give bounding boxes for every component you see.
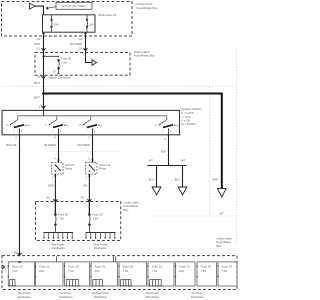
svg-text:BLK: BLK [161,149,166,153]
label ACC Cut Relay [99,163,110,171]
wire YEL [88,174,90,214]
svg-text:Fuse 24: Fuse 24 [222,265,233,269]
svg-text:WHT: WHT [34,42,40,46]
label Fan Power Distribution [52,243,66,250]
svg-text:No Power: No Power [60,291,72,295]
label Fuse 20 7.5A [93,213,104,221]
hollow arrow (M/T drop) [178,187,187,195]
svg-text:Sea Power: Sea Power [18,291,31,295]
svg-text:Multi-fuse 23: Multi-fuse 23 [99,13,117,17]
under-dash fuse/relay box section 2 (dashed) [36,202,121,241]
label Under-hood Fuse/Relay Box [137,2,159,10]
fuse module Fuse 20 [118,262,146,287]
label Under-dash Fuse/Relay Box (lower) [124,201,139,212]
svg-text:Distribution: Distribution [59,295,73,299]
label Sea Power Distribution (module 1) [18,291,32,299]
under-dash fuse/relay box section 1 (dashed) [35,53,130,76]
under-hood fuse/relay box (dashed enclosure) [2,2,133,37]
branch wire to fuse 39 [44,56,59,57]
label Under-dash Fuse/Relay Box (right) [217,237,232,248]
internal bus wire [18,115,167,117]
svg-text:7.5A: 7.5A [58,217,64,221]
svg-text:Box: Box [217,244,223,248]
label No Power Distribution (module 3) [59,291,73,299]
wire GRN [54,174,56,214]
fuse F38 [55,214,57,233]
svg-text:GRN: GRN [48,183,54,187]
fuse module Fuse 18 [64,262,90,287]
junction node A/T tap [42,92,45,95]
battery feed triangle symbol [30,3,36,9]
harness dotted boundary (middle) [50,151,121,153]
svg-text:G2: G2 [79,37,83,41]
wire from triangle to multi-fuse 23 [35,6,43,15]
svg-text:Fuse/Relay Box: Fuse/Relay Box [134,54,156,58]
svg-text:Box: Box [124,208,130,212]
fuse (left, 10A) [51,15,53,32]
svg-text:Fuse 21: Fuse 21 [152,265,163,269]
svg-text:Fuse 20: Fuse 20 [123,265,134,269]
wire BLK/RED [58,135,60,163]
pin tick G2 at box bottom [84,32,87,34]
svg-text:Relay: Relay [65,166,73,170]
svg-text:10A: 10A [39,269,44,273]
svg-text:YEL: YEL [83,183,89,187]
wire into fuse 20 [88,202,90,214]
svg-text:No Power: No Power [192,291,204,295]
svg-text:Da Sea Power: Da Sea Power [92,291,109,295]
svg-text:Fuse 11: Fuse 11 [39,265,50,269]
svg-text:Fuse/Relay Box: Fuse/Relay Box [137,6,159,10]
svg-text:A5: A5 [81,195,85,199]
connector arrow at A4 [53,199,57,202]
svg-text:WHT: WHT [213,178,219,182]
hollow arrow (A/T drop) [152,187,161,195]
svg-text:Distribution: Distribution [146,295,160,299]
hollow arrow (to other circuit) [92,60,97,66]
pin tick G1 at box bottom [42,32,45,34]
svg-text:Distribution: Distribution [18,295,32,299]
svg-text:III = START: III = START [181,122,196,126]
svg-text:Fuse 18: Fuse 18 [68,265,79,269]
hollow arrow to A/T [218,189,227,197]
wire WHT/RED into section 1 to arrow [86,53,92,63]
svg-text:7.5A: 7.5A [152,269,158,273]
ignition switch gang 3 [79,116,102,135]
relay pin stub (IG2 bottom) [54,174,56,177]
svg-text:BLU: BLU [175,177,180,181]
fuse F39 [57,59,60,73]
connector arrow on wire G2 [84,48,88,51]
svg-text:G1: G1 [37,37,41,41]
svg-text:Fuse 19: Fuse 19 [95,265,106,269]
pin arrow on left edge [2,265,5,269]
svg-text:BLK/RED: BLK/RED [44,143,56,147]
svg-text:7.5A: 7.5A [201,269,207,273]
harness dotted boundary (right) [209,87,211,216]
IG2 relay contact [55,164,61,172]
svg-text:7.5A: 7.5A [68,269,74,273]
junction node to fuse 39 [42,55,44,57]
wire G2 WHT/RED (right output of multi-fuse) [85,32,87,52]
svg-text:A/T: A/T [220,212,225,216]
wire G1 WHT (left output of multi-fuse) [43,32,45,52]
connector arrow on wire G1 [42,48,46,51]
ACC cut relay box [86,163,98,175]
wire WHT (to ignition switch) [43,75,45,110]
svg-text:Fuse 23: Fuse 23 [201,265,212,269]
fuse (right, 10A) [86,15,88,32]
connector arrow at A5 [87,199,91,202]
label Sea Power Distribution (module 6) [146,291,160,299]
label Da Sea Power Distribution (module 4) [92,291,109,299]
fuse module Fuse 23 [196,262,216,286]
svg-text:A4: A4 [47,195,51,199]
HOT AT ALL TIMES box [56,2,92,9]
harness dotted boundary (top) [2,86,237,88]
svg-text:G1: G1 [37,47,41,51]
wire BLU (A/T) [156,166,158,188]
distribution bar (fuse 20) [86,232,116,234]
connector arrow at A8 [18,253,22,256]
fuse F20 [89,214,91,233]
splice bar [147,165,186,167]
svg-text:BLK/YEL: BLK/YEL [6,143,17,147]
connector arrow into ignition switch [42,106,46,109]
wire BLK/YEL [19,135,21,256]
harness dotted boundary (bottom right) [150,215,237,217]
svg-text:WHT: WHT [34,81,40,85]
wire WHT through section 1 [43,53,45,76]
fuse module Fuse 21 [147,262,174,287]
svg-text:7.5A: 7.5A [123,269,129,273]
distribution ticks (fuse 20) [86,233,115,238]
svg-text:A8: A8 [14,250,18,254]
IG2 cut relay box [52,163,64,175]
relay pin stub (ACC bottom) [88,174,90,177]
relay pin stub (ACC top) [92,159,94,163]
ignition switch gang 2 [45,116,68,135]
ignition switch gang 1 [6,116,29,135]
svg-text:Distribution: Distribution [94,246,108,250]
leader line to HOT AT ALL TIMES label [48,7,56,8]
svg-text:G3: G3 [79,47,83,51]
svg-text:WHT: WHT [34,96,40,100]
label Fuse 38 7.5A [58,213,69,221]
fuse module Fuse 11 [35,256,63,286]
svg-text:Distribution: Distribution [94,295,108,299]
multi-fuse 23 box [43,15,96,32]
label Fuse 39 7.5A [61,57,72,65]
ignition switch gang 4 [155,116,178,135]
svg-text:10A: 10A [54,22,59,26]
svg-text:A/T: A/T [149,159,154,163]
fuse module Fuse 24 [217,262,237,286]
svg-text:7.5A: 7.5A [222,269,228,273]
svg-text:Distribution: Distribution [52,246,66,250]
svg-text:WHT/RED: WHT/RED [70,42,83,46]
distribution arrowheads (fuse 20) [85,238,116,240]
svg-text:BLU: BLU [149,177,154,181]
label Under-dash Fuse/Relay Box (upper) [134,50,156,58]
svg-text:HOT AT ALL TIMES: HOT AT ALL TIMES [62,4,86,8]
connector arrow at A2 (option connector) [42,76,46,79]
ignition switch box [2,110,180,134]
distribution arrowheads (fuse 38) [43,238,73,240]
wire BLU (M/T) [182,166,184,188]
wire into fuse 38 [54,202,56,214]
junction dot fuse 10 feed [18,261,20,263]
svg-text:A2: A2 [37,75,41,79]
svg-text:WHT/RED: WHT/RED [77,143,90,147]
fuse module Fuse 19 [90,256,117,287]
svg-text:10A: 10A [89,22,94,26]
svg-text:Fuse 10: Fuse 10 [12,265,23,269]
harness dotted boundary (far right vertical) [236,50,238,242]
wire BLK [168,135,170,166]
svg-text:M/T: M/T [181,159,186,163]
relay pin stub (IG2 top) [58,159,60,163]
svg-text:7.5A: 7.5A [61,60,67,64]
bus feed from pin 1 [43,111,45,116]
fuse module Fuse 10 [8,262,35,287]
svg-text:Relay: Relay [99,166,107,170]
label Rear Power Distribution [94,243,108,250]
thick wire to A/T (horizontal + vertical) [44,94,222,189]
svg-text:10A: 10A [95,269,100,273]
svg-text:Option Connector: Option Connector [49,76,71,80]
svg-text:Fuse 22: Fuse 22 [179,265,190,269]
leader dot on wire corner [46,7,48,9]
svg-text:7.5A: 7.5A [12,269,18,273]
under-dash fuse/relay box section 3 (dashed, bottom) [2,256,237,290]
fuse module Fuse 22 [175,262,195,286]
ignition switch legend [181,107,201,126]
svg-text:Sea Power: Sea Power [146,291,159,295]
distribution bar (fuse 38) [44,232,74,234]
svg-text:7.5A: 7.5A [93,217,99,221]
ACC relay contact [89,164,95,172]
svg-text:10A: 10A [179,269,184,273]
label IG2 Cut Relay [65,163,75,171]
label No Power Distribution (module 8) [191,291,205,299]
svg-text:Distribution: Distribution [191,295,205,299]
distribution ticks (fuse 38) [44,233,72,238]
wire WHT/RED (lower) [92,135,94,163]
